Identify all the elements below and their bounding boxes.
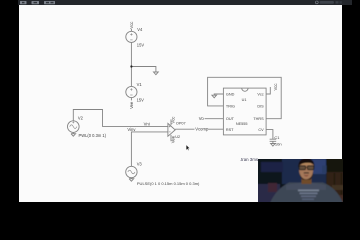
ground below C1 xyxy=(271,141,276,146)
svg-text:THRS: THRS xyxy=(253,117,264,121)
ground left of IC xyxy=(212,95,217,98)
wire GND pin to ground xyxy=(214,94,223,95)
wire CV to capacitor xyxy=(266,130,273,140)
webcam mouth xyxy=(303,174,308,176)
svg-text:10n: 10n xyxy=(275,141,282,146)
svg-text:Vee: Vee xyxy=(129,101,134,109)
wire Vee stub below V1 xyxy=(130,98,132,101)
toolbar icon detail xyxy=(22,2,54,4)
webcam person shirt xyxy=(270,182,343,203)
svg-text:V3: V3 xyxy=(137,162,143,167)
ground right of junction xyxy=(154,72,159,75)
webcam person neck xyxy=(301,177,311,184)
op-amp power stubs xyxy=(170,119,172,141)
svg-text:PULSE(0 1 0 0.15m 0.15m 0 0.3m: PULSE(0 1 0 0.15m 0.15m 0 0.3m) xyxy=(137,181,200,186)
wire Vcc stub above V4 xyxy=(130,29,132,32)
svg-text:Vni: Vni xyxy=(144,121,150,126)
ground below V2 xyxy=(71,132,76,136)
svg-text:OUT: OUT xyxy=(226,117,235,121)
canvas xyxy=(19,5,342,202)
svg-text:V2: V2 xyxy=(78,116,84,121)
voltage source V1 xyxy=(126,86,137,97)
svg-text:Vo: Vo xyxy=(199,116,205,121)
toolbar right marks xyxy=(336,1,339,3)
toolbar search pill xyxy=(320,1,335,4)
op-amp U2 xyxy=(168,123,175,136)
svg-text:TRIG: TRIG xyxy=(226,104,235,108)
wire junction to ground xyxy=(131,67,156,73)
wire Vcc stub right of IC xyxy=(266,87,270,94)
svg-text:15V: 15V xyxy=(137,43,145,48)
wire V2 to opamp + input (net Vni) xyxy=(73,110,168,127)
webcam mustache xyxy=(303,172,308,173)
svg-text:Vcc: Vcc xyxy=(129,22,134,29)
voltage source V4 xyxy=(126,31,137,42)
wire TRG loop over IC to THRS xyxy=(208,77,282,118)
voltage source V2 xyxy=(68,121,80,133)
wire OUT to Vo label xyxy=(205,118,224,120)
svg-text:Vinv: Vinv xyxy=(127,127,136,132)
webcam background xyxy=(257,158,345,204)
svg-text:V4: V4 xyxy=(137,27,143,32)
toolbar search icon xyxy=(315,1,318,4)
svg-text:U1: U1 xyxy=(242,98,247,102)
svg-text:NE555: NE555 xyxy=(236,122,248,126)
webcam face highlight xyxy=(301,161,311,165)
toolbar xyxy=(18,0,352,5)
svg-text:OP07: OP07 xyxy=(176,121,186,125)
toolbar icon group 1 xyxy=(20,1,55,4)
webcam person hair xyxy=(298,158,314,168)
IC notch xyxy=(242,88,248,91)
svg-text:Vcomp: Vcomp xyxy=(195,127,209,132)
webcam wardrobe xyxy=(326,171,345,204)
capacitor C1 xyxy=(270,139,277,141)
svg-text:RST: RST xyxy=(226,128,234,132)
webcam person beard xyxy=(299,171,313,179)
webcam wall glow xyxy=(282,158,326,184)
webcam overlay xyxy=(258,159,344,203)
webcam person head xyxy=(299,159,314,179)
wire Vinv: V3 up to opamp - input xyxy=(131,132,168,167)
svg-text:Vcc: Vcc xyxy=(273,84,278,91)
webcam person glasses xyxy=(299,165,305,169)
voltage source V3 xyxy=(126,166,137,177)
svg-text:PWL(0 0.3m 1): PWL(0 0.3m 1) xyxy=(79,133,107,138)
IC U1 NE555 body xyxy=(223,88,266,135)
svg-text:CV: CV xyxy=(258,128,264,132)
svg-text:C1: C1 xyxy=(274,135,280,140)
webcam bed bottom left xyxy=(257,184,280,204)
svg-text:V1: V1 xyxy=(137,82,143,87)
wire opamp output Vcomp to RST xyxy=(175,128,223,130)
svg-text:.tran 3ms: .tran 3ms xyxy=(240,157,259,162)
svg-text:U2: U2 xyxy=(175,135,180,139)
webcam blue drawer right xyxy=(322,165,333,173)
node junction dot xyxy=(130,65,132,67)
svg-text:Vcc: Vcc xyxy=(171,117,176,124)
webcam shirt print xyxy=(298,189,319,191)
mouse cursor xyxy=(186,145,190,151)
svg-text:Vcc: Vcc xyxy=(257,93,263,97)
svg-text:GND: GND xyxy=(226,93,235,97)
ground below V3 xyxy=(129,178,134,182)
svg-text:15V: 15V xyxy=(137,97,145,102)
webcam poster on wall xyxy=(261,162,283,172)
wire V4 to junction to V1 xyxy=(130,43,132,87)
svg-text:DIS: DIS xyxy=(257,104,264,108)
